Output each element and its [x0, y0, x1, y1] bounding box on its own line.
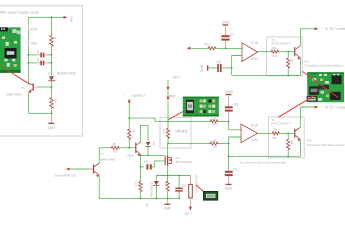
transistor T3 [294, 46, 300, 60]
bus jog +SUPPLY to shunt [129, 118, 168, 121]
resistor R2 (167.7 column) [164, 175, 170, 199]
resistor R6 (column from +SUPPLY) [128, 118, 137, 148]
svg-text:+SUPPLY: +SUPPLY [131, 94, 146, 98]
svg-text:R12: R12 [204, 43, 210, 47]
resistor R7 (140.5 column) [134, 181, 142, 199]
svg-text:PDTC114ET ?: PDTC114ET ? [271, 122, 291, 126]
node base junction T2 [287, 132, 289, 134]
ground (left box) [48, 113, 56, 130]
T4 emitter wire [29, 92, 52, 113]
node C1 row junction [178, 175, 180, 177]
resistor R8 [272, 132, 280, 135]
svg-text:2333: 2333 [30, 42, 38, 46]
svg-text:0R05: 0R05 [165, 130, 169, 137]
resistor R12 [207, 47, 216, 50]
frame box: amplifier power supply sub-circuit enclosure [0, 6, 82, 136]
resistor R4 [168, 139, 230, 149]
wire [27, 32, 29, 41]
node zener rail junction [155, 197, 157, 199]
+SUPPLY flag [123, 94, 146, 119]
transistor T4 MMBT5401 [6, 83, 52, 97]
svg-text:shunt: shunt [175, 129, 188, 135]
node [27, 62, 29, 64]
op-amp IC1A [241, 124, 259, 143]
resistor R9 [99, 142, 135, 153]
callout line photo1 -> T4 [2, 67, 30, 85]
svg-text:C2: C2 [233, 167, 237, 171]
net arrow To E connector [315, 106, 319, 109]
+30v supply arrow [64, 16, 68, 19]
svg-text:R3: R3 [214, 123, 218, 127]
svg-text:GND: GND [222, 21, 230, 25]
svg-text:GND: GND [164, 206, 172, 210]
net arrow To B connector [315, 27, 319, 30]
svg-text:BZX84C6A8: BZX84C6A8 [149, 182, 153, 197]
T2 emitter down [299, 140, 301, 157]
wire [216, 47, 242, 49]
node C7/R12 junction [225, 47, 227, 49]
svg-text:R4: R4 [214, 145, 218, 149]
svg-text:GND: GND [226, 90, 234, 94]
ground (above C7) [222, 21, 230, 36]
IC1A output wire [258, 132, 272, 134]
svg-text:C8: C8 [234, 103, 238, 107]
svg-text:−: − [242, 136, 244, 140]
wire [70, 168, 89, 170]
node C6 junction [231, 67, 233, 69]
svg-text:−: − [243, 55, 245, 59]
callout T2 -> photo3 [279, 95, 316, 117]
svg-text:Transistor with bias resistors: Transistor with bias resistors [305, 64, 345, 68]
svg-text:GND: GND [48, 126, 56, 130]
node [27, 54, 29, 56]
op-amp IC1B [242, 41, 258, 61]
svg-text:MCU20P10: MCU20P10 [176, 160, 192, 164]
node T3 bias junction [287, 74, 289, 76]
column down from Q6A emitter node [140, 155, 142, 181]
IC1B inverting input network [232, 56, 242, 76]
resistor R10 [271, 50, 279, 53]
wire left column [27, 46, 29, 83]
wire down to feedback / C2 [228, 144, 230, 171]
svg-text:30v ?: 30v ? [185, 212, 193, 216]
bias resistor (T2) [287, 133, 294, 156]
feedback wire IC1B [232, 74, 301, 76]
Q6A emitter / gate wire [141, 154, 165, 156]
svg-text:T4: T4 [21, 86, 25, 90]
ground (bottom rail) [164, 198, 172, 210]
T1 collector up to R9 row [98, 148, 100, 163]
ground below C2 [225, 176, 233, 191]
Q6A collector loop to diode D2 [141, 125, 149, 142]
ground (rotated, at C6) [200, 64, 209, 72]
svg-text:mplifier power supply circuit: mplifier power supply circuit [0, 10, 39, 14]
capacitor C6 (at IC1B -in) [208, 60, 232, 72]
net arrow Daisy PWR ON [66, 168, 70, 171]
svg-text:MMBT5401: MMBT5401 [6, 93, 22, 97]
capacitor C8 [225, 103, 238, 122]
svg-text:D2: D2 [152, 143, 156, 147]
svg-text:Z5: Z5 [48, 71, 52, 75]
svg-text:2333: 2333 [251, 57, 258, 61]
wire top rail [28, 17, 66, 24]
svg-text:I'm not sure about this connec: I'm not sure about this connection [240, 161, 286, 165]
transistor Q6A [127, 142, 140, 161]
capacitor C6 [28, 57, 52, 65]
svg-text:C7: C7 [230, 33, 234, 37]
junction dots on bottom rail [140, 197, 142, 199]
bias resistor (T3) [287, 52, 294, 76]
svg-text:C6: C6 [36, 57, 40, 61]
svg-text:* To "B?" connector: * To "B?" connector [322, 27, 345, 31]
svg-text:C5: C5 [36, 49, 40, 53]
svg-text:C6: C6 [216, 60, 220, 64]
wire [279, 51, 294, 53]
svg-text:10k: 10k [54, 99, 58, 104]
svg-text:100: 100 [272, 128, 277, 132]
T3 emitter down [299, 58, 301, 75]
svg-text:+: + [242, 128, 244, 132]
svg-text:68: 68 [113, 142, 117, 146]
svg-text:R10: R10 [272, 54, 278, 58]
svg-text:Transistor with bias resistors: Transistor with bias resistors [307, 143, 345, 147]
callout C1 -> small photo [196, 185, 206, 193]
op-amp power IC1P pin V+ [27, 24, 29, 32]
IC1A +in jog [229, 121, 241, 130]
wire [51, 81, 53, 94]
svg-text:100: 100 [211, 116, 216, 120]
svg-text:+: + [243, 47, 245, 51]
svg-text:C1: C1 [182, 184, 186, 188]
svg-text:GND: GND [225, 187, 233, 191]
node gnd rail junction [167, 197, 169, 199]
capacitor C4 [141, 160, 165, 170]
node feedback junction [228, 156, 230, 158]
svg-text:MMBT5442: MMBT5442 [99, 157, 115, 161]
node Q1 source junction [167, 175, 169, 177]
op-amp power IC1P pin V- value 2333 [27, 40, 29, 46]
wire [280, 132, 294, 134]
resistor R3 [168, 116, 230, 126]
ground above C8 [226, 90, 234, 106]
zener diode (bottom left cluster) [149, 175, 159, 199]
svg-text:IC1A: IC1A [251, 124, 259, 128]
electrolytic capacitor C1 [185, 175, 199, 216]
transistor T1 [89, 152, 115, 177]
svg-text:C4: C4 [144, 160, 148, 164]
net arrow (left, R12 input) [187, 47, 191, 50]
svg-text:PDTC114ET ?: PDTC114ET ? [271, 42, 291, 46]
feedback wire IC1A to T2 emitter [229, 155, 301, 157]
node base junction T3 [287, 51, 289, 53]
T2 collector out to arrow [300, 107, 314, 127]
svg-text:MAL2020V 50V: MAL2020V 50V [194, 175, 198, 194]
svg-text:Daisy PWR ON: Daisy PWR ON [55, 174, 76, 178]
T1 emitter down to bottom rail [99, 176, 178, 199]
callout T3 -> photo3 [303, 72, 338, 98]
resistor R (supply divider 1k) [50, 35, 53, 48]
T3 collector out to arrow [300, 29, 314, 46]
node T2 bias junction [287, 156, 289, 158]
transistor T2 [294, 127, 300, 141]
capacitor C5 [28, 49, 52, 57]
svg-text:IC1B: IC1B [251, 41, 258, 45]
+30 V flag with Daisy net [167, 76, 182, 128]
svg-text:R1: R1 [164, 182, 168, 186]
svg-text:100: 100 [271, 46, 276, 50]
resistor R (bottom, 51.5 column) [45, 92, 57, 114]
svg-text:R5: R5 [162, 130, 166, 134]
callout shunt box -> photo2 [169, 111, 185, 120]
svg-text:GND: GND [200, 64, 204, 72]
T3 box [267, 37, 303, 76]
node Q6A emitter junction [140, 154, 142, 156]
svg-text:* To "E?" connector: * To "E?" connector [322, 105, 345, 109]
svg-text:R8: R8 [273, 136, 277, 140]
node top rail junction [51, 17, 53, 19]
T2 box [269, 117, 305, 158]
capacitor C3 [175, 176, 186, 200]
svg-text:10k: 10k [290, 140, 294, 145]
svg-text:2333: 2333 [251, 138, 258, 142]
diode D2 [146, 142, 156, 156]
svg-text:IC1P: IC1P [30, 28, 38, 32]
svg-text:R1: R1 [134, 183, 138, 187]
resistor R (top, 51.5 column) [51, 17, 53, 34]
capacitor C7 [221, 33, 234, 48]
wire [51, 46, 53, 76]
svg-text:+30v: +30v [69, 15, 73, 22]
svg-text:BZX84-C5V6: BZX84-C5V6 [57, 72, 76, 76]
svg-text:10k: 10k [290, 59, 294, 64]
svg-text:R9: R9 [113, 150, 117, 154]
IC1B output wire [258, 51, 271, 53]
shunt box [160, 117, 191, 148]
MOSFET Q1 [165, 144, 192, 176]
node [51, 86, 53, 88]
svg-text:D1: D1 [145, 204, 149, 208]
node C4 junction [140, 166, 142, 168]
wire [191, 47, 207, 49]
svg-text:T1: T1 [100, 152, 104, 156]
IC1A -in jog [229, 137, 241, 144]
output node row [156, 175, 190, 177]
svg-text:+30 V: +30 V [172, 76, 181, 80]
capacitor C2 [225, 167, 237, 176]
zener diode BZX84-C5V6 [48, 71, 77, 81]
svg-text:100: 100 [211, 139, 216, 143]
